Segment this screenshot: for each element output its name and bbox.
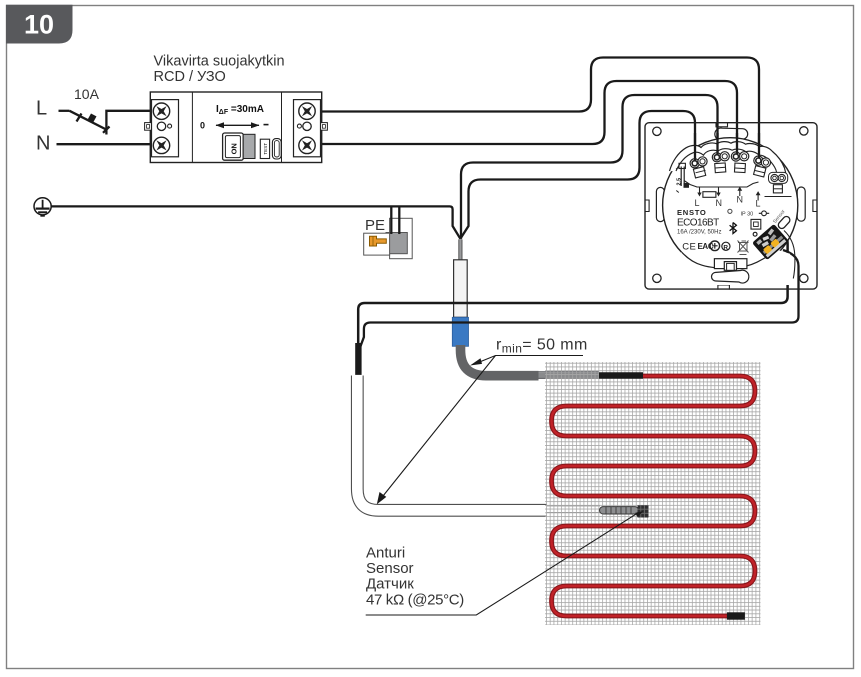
sensor wire S1 (358, 234, 787, 353)
WEEE bin (738, 241, 749, 255)
terminal shelf outline (684, 181, 759, 188)
mounting plate (645, 123, 817, 289)
PE clamp wires (390, 207, 392, 234)
device bottom skirt (wavy) (670, 250, 790, 285)
wire overlays through crown (694, 133, 696, 164)
svg-text:Датчик: Датчик (366, 576, 414, 593)
lamp symbol (762, 211, 767, 216)
svg-text:TEST: TEST (263, 143, 268, 155)
svg-text:R: R (723, 244, 728, 251)
bottom latch tab (714, 259, 747, 271)
svg-text:Anturi: Anturi (366, 545, 405, 562)
RCD body (145, 92, 328, 163)
tube continuation lines (547, 506, 600, 513)
sensor plug socket capsule (777, 215, 791, 230)
RCD TEST button (260, 139, 281, 159)
sensor terminal pair (769, 172, 788, 193)
wire load N (W4) (460, 111, 695, 239)
breaker 10A (59, 111, 151, 135)
svg-text:2.5: 2.5 (677, 178, 683, 186)
terminal crown (wavy cover) (670, 142, 788, 179)
svg-text:L: L (695, 198, 700, 208)
svg-text:N: N (737, 195, 744, 205)
cold joint: gray stub below V junction (459, 239, 463, 261)
wire N supply (57, 143, 151, 145)
svg-text:RCD / УЗО: RCD / УЗО (154, 69, 226, 85)
wire load L (W3) (461, 95, 718, 239)
svg-text:Sensor: Sensor (366, 560, 414, 577)
svg-text:L: L (36, 98, 47, 120)
svg-text:ECO16BT: ECO16BT (677, 218, 719, 229)
class II icon (751, 219, 761, 229)
wire PE from ground to junction (51, 206, 460, 238)
svg-text:ENSTO: ENSTO (677, 208, 707, 217)
ground symbol (34, 198, 51, 216)
svg-text:Vikavirta suojakytkin: Vikavirta suojakytkin (154, 53, 285, 69)
svg-text:0: 0 (200, 121, 205, 131)
white sleeve (454, 260, 468, 318)
terminal T1 (690, 157, 707, 178)
svg-text:PE: PE (365, 217, 385, 234)
small dot (753, 232, 757, 236)
svg-text:CE: CE (682, 242, 696, 253)
merged sensor lead (355, 343, 361, 378)
terminal T3 (731, 152, 749, 173)
sensor protective tube (357, 376, 547, 511)
plate side slots (656, 128, 805, 222)
wire RCD L out (W1) (322, 58, 760, 162)
svg-text:10A: 10A (74, 86, 100, 102)
heating cable serpentine (552, 376, 756, 616)
small circle indicator (728, 209, 732, 213)
floor sensor capsule (600, 505, 649, 517)
RCD terminal screws (153, 103, 315, 154)
RCD ON switch (223, 133, 255, 160)
wire RCD N out (W2) (322, 81, 738, 157)
guide arc (784, 231, 795, 279)
wire clamp release + 2.5 mark (679, 163, 689, 187)
blue marker (452, 317, 468, 346)
device circle (663, 138, 798, 273)
svg-text:N: N (716, 198, 723, 208)
terminal T2 (712, 152, 729, 173)
svg-text:N: N (36, 133, 50, 155)
heating cable cold lead (dark gray curve) (461, 345, 539, 376)
bottom keyhole slot (711, 270, 748, 283)
svg-text:ON: ON (229, 143, 238, 154)
terminal T4 (754, 156, 771, 177)
svg-text:47 kΩ (@25°C): 47 kΩ (@25°C) (366, 592, 464, 609)
PE clamp housing (364, 218, 413, 258)
svg-text:16A /230V, 50Hz: 16A /230V, 50Hz (677, 230, 721, 236)
svg-text:L: L (756, 199, 761, 209)
cable black joint (599, 372, 643, 379)
cert circle (710, 241, 720, 251)
bluetooth icon (730, 223, 737, 234)
sensor wire S2 (360, 250, 799, 360)
svg-text:10: 10 (24, 10, 54, 40)
R mark (722, 242, 730, 250)
cable end terminator (727, 612, 745, 619)
sensor connector (752, 224, 789, 260)
r_min pointer lines (480, 356, 584, 363)
cable mid segment (539, 372, 600, 378)
step number box 10 (6, 5, 73, 44)
load symbol arrows L N (697, 187, 759, 201)
plate edge notches (645, 122, 818, 289)
svg-text:rmin= 50 mm: rmin= 50 mm (496, 337, 588, 356)
svg-text:IP 30: IP 30 (741, 211, 754, 217)
plate corner holes (653, 127, 808, 283)
sensor pointer line (366, 514, 637, 616)
